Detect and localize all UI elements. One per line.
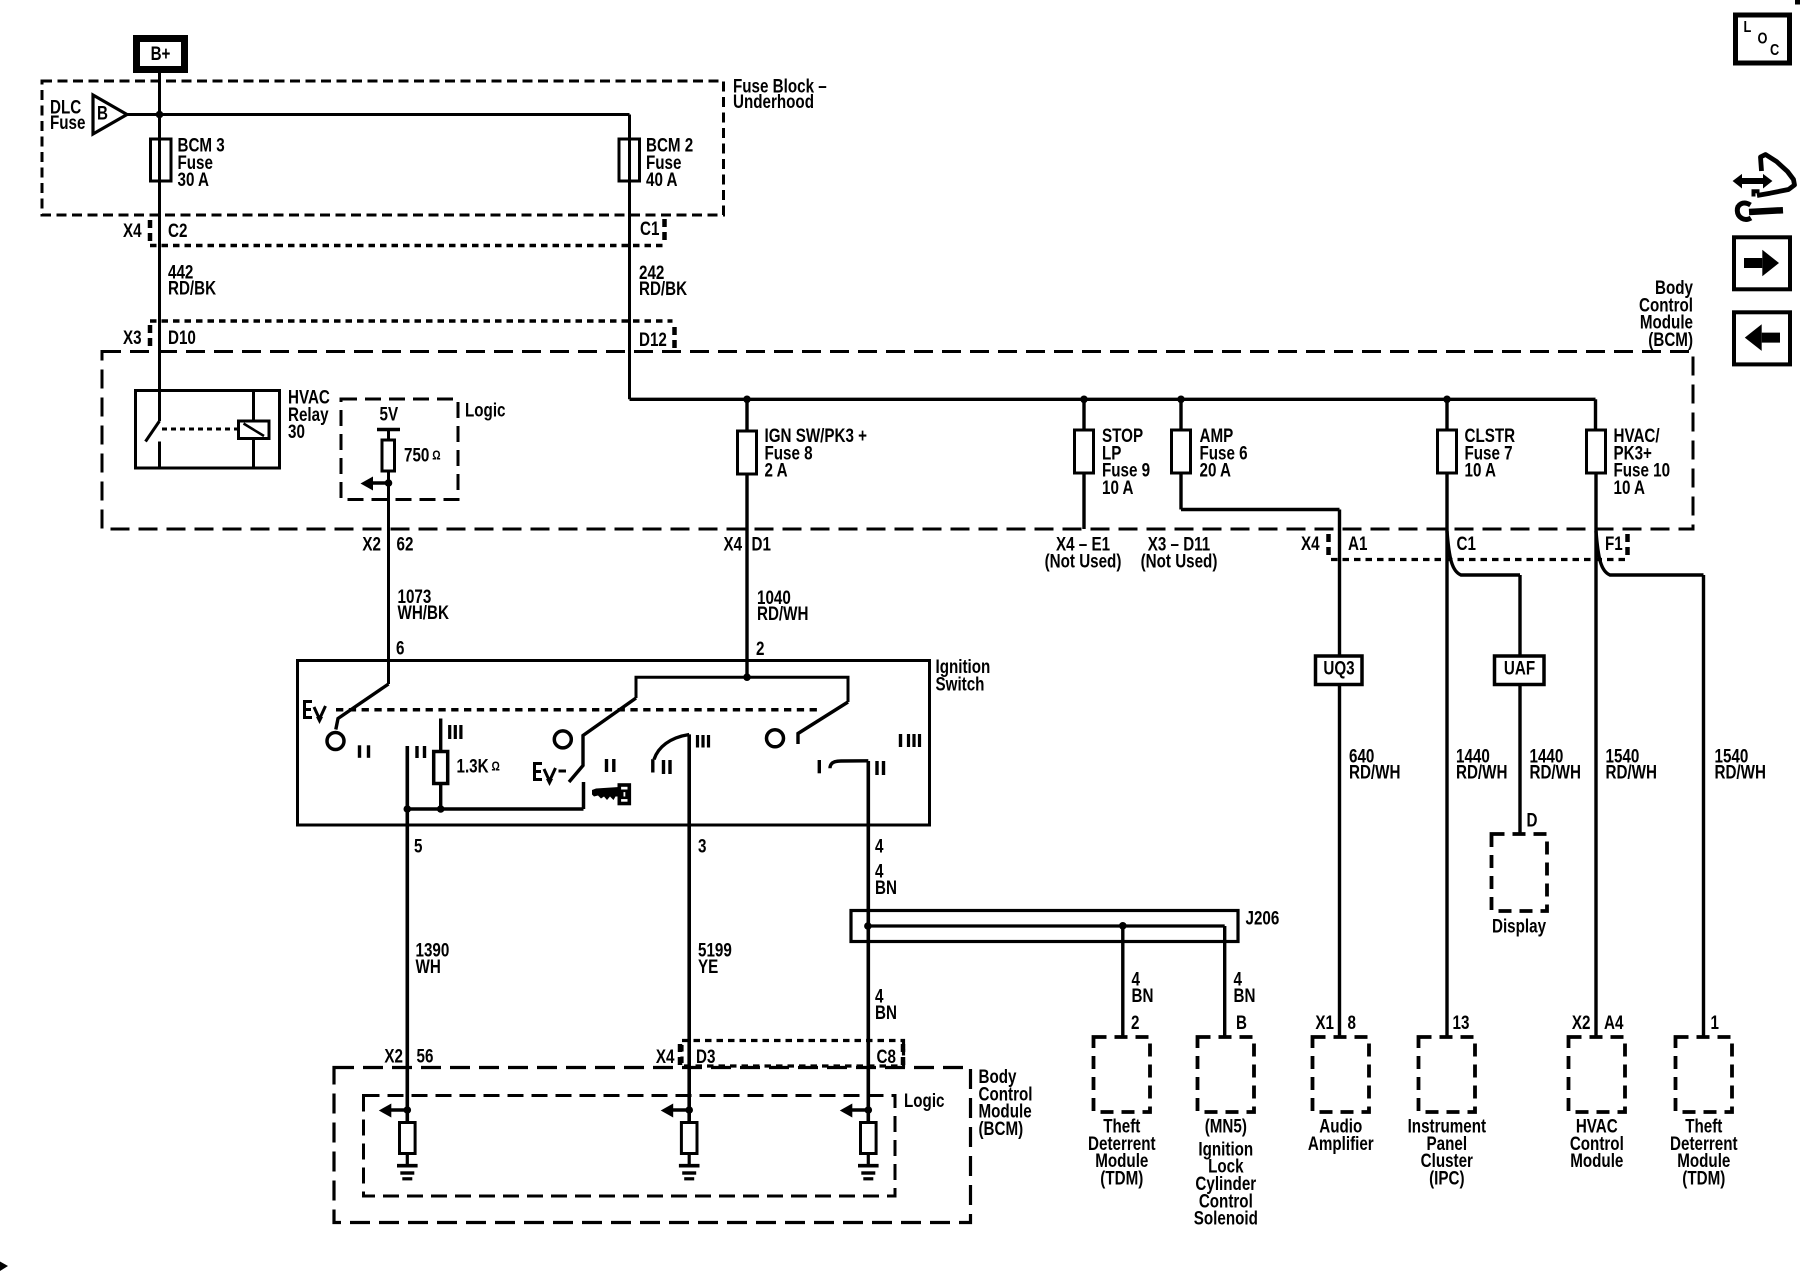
module Audio Amplifier dashed box <box>1313 1037 1370 1112</box>
option box UAF <box>1495 656 1545 685</box>
svg-text:C: C <box>1770 42 1780 60</box>
junction pin2 feed <box>743 673 751 681</box>
wire 1540 RD/WH fuse 10 to HVAC control module <box>1594 473 1597 1037</box>
svg-text:X4: X4 <box>1301 532 1320 554</box>
svg-text:C8: C8 <box>877 1045 897 1067</box>
svg-text:C2: C2 <box>168 219 187 241</box>
actuator dash <box>559 770 567 773</box>
svg-text:UQ3: UQ3 <box>1323 657 1354 679</box>
wire 1390 WH pin 5 to BCM logic <box>405 746 409 1110</box>
svg-text:D10: D10 <box>168 326 196 348</box>
switch 4 fixed contact curve <box>830 761 868 769</box>
module Theft Deterrent Module (right) dashed box <box>1676 1037 1733 1112</box>
svg-text:3: 3 <box>698 835 706 857</box>
switch 2 contact circle <box>554 731 571 748</box>
wire UAF to display <box>1518 685 1521 835</box>
relay coil diagonal <box>244 424 265 437</box>
wire link to key contact <box>407 807 583 810</box>
wire to logic arrow <box>371 481 389 485</box>
wire 4 BN to solenoid pin B <box>1223 926 1226 1037</box>
position mark I (switch 3) <box>651 759 654 772</box>
junction at B+ feed <box>156 111 164 119</box>
junction bus / fuse 7 <box>1443 396 1451 404</box>
node B+ battery feed box <box>137 39 185 70</box>
svg-text:1: 1 <box>1711 1011 1720 1033</box>
svg-text:4: 4 <box>875 835 884 857</box>
resistor 750 ohm <box>382 440 395 471</box>
arrow into BCM logic 3 <box>840 1104 853 1118</box>
svg-text:Fuse Block –Underhood: Fuse Block –Underhood <box>733 75 827 113</box>
fuse block - underhood dashed box <box>42 81 724 215</box>
svg-text:B: B <box>97 102 108 124</box>
ground symbol 1 <box>397 1164 418 1168</box>
wire 640 RD/WH horizontal <box>1181 508 1340 511</box>
svg-text:13: 13 <box>1453 1011 1470 1033</box>
svg-text:L: L <box>1744 19 1752 37</box>
svg-text:D: D <box>1527 809 1538 831</box>
ignition switch box <box>298 661 930 826</box>
wire to logic arrow 2 <box>672 1108 689 1112</box>
wire fuse 6 down <box>1179 473 1182 510</box>
wire resistor to node <box>387 471 390 483</box>
junction resistor/link <box>437 805 445 813</box>
position mark I (right) <box>899 734 902 747</box>
svg-text:X4 – E1(Not Used): X4 – E1(Not Used) <box>1045 533 1122 572</box>
connector line A1-F1 <box>1331 558 1626 561</box>
svg-text:Display: Display <box>1492 915 1546 937</box>
resistor 1.3K ohm <box>434 752 448 784</box>
junction logic input 1 <box>404 1106 412 1114</box>
svg-text:X2: X2 <box>1572 1011 1591 1033</box>
relay switch fixed contact <box>158 442 161 469</box>
wire branch 1540 RD/WH to TDM <box>1596 531 1704 575</box>
svg-text:X4: X4 <box>724 533 743 555</box>
fuse CLSTR Fuse 7 10A <box>1438 430 1457 473</box>
svg-text:A1: A1 <box>1348 532 1368 554</box>
wire branch 1440 RD/WH to UAF <box>1447 531 1520 575</box>
switch 2 lock actuator symbol <box>533 762 556 781</box>
logic dashed box (BCM bottom) <box>364 1096 896 1197</box>
wire resistor 1 to ground <box>406 1154 409 1165</box>
module Display dashed box <box>1492 834 1548 911</box>
svg-text:X2: X2 <box>362 533 381 555</box>
svg-text:8: 8 <box>1348 1011 1357 1033</box>
svg-text:5V: 5V <box>380 403 399 425</box>
svg-text:D12: D12 <box>639 328 667 350</box>
svg-text:DLCFuse: DLCFuse <box>50 96 85 134</box>
junction J206 feed <box>864 922 872 930</box>
relay actuation dashes <box>162 428 238 431</box>
wire to logic arrow 1 <box>390 1108 407 1112</box>
option box UQ3 <box>1316 656 1363 685</box>
svg-text:D1: D1 <box>752 533 772 555</box>
position mark II (switch 2) <box>605 759 608 772</box>
arrow into BCM logic 2 <box>661 1104 674 1118</box>
splice J206 bus bar <box>868 924 1225 927</box>
wire to logic arrow 3 <box>851 1108 868 1112</box>
svg-text:5: 5 <box>414 835 423 857</box>
svg-text:C1: C1 <box>1457 532 1477 554</box>
svg-text:X1: X1 <box>1315 1011 1334 1033</box>
resistor pull-down 1 <box>400 1123 416 1154</box>
wire bus 242 RD/BK inside BCM <box>630 398 1596 401</box>
wire from DLC fuse to BCM 2 fuse <box>127 113 630 116</box>
position mark II (pin 5) <box>415 746 418 758</box>
resistor pull-down 3 <box>861 1123 877 1154</box>
wire 1040 RD/WH fuse 8 to ignition switch <box>745 474 748 677</box>
junction pin5/link <box>404 805 412 813</box>
junction logic input 2 <box>685 1106 693 1114</box>
wire node to resistor 2 <box>687 1110 691 1123</box>
wire node to resistor 1 <box>405 1110 409 1123</box>
switch gang linkage dashes <box>336 708 821 712</box>
ground symbol 2 <box>679 1164 700 1168</box>
legend service icon: squiggle arrow <box>1757 155 1795 196</box>
switch 4 contact circle <box>767 730 784 747</box>
ground symbol 3 <box>858 1164 879 1168</box>
fuse HVAC/PK3+ Fuse 10 10A <box>1587 430 1606 473</box>
wire 242 RD/BK vertical through BCM 2 fuse down to bus <box>628 115 631 400</box>
svg-text:O: O <box>1758 30 1768 48</box>
wire 5199 YE pin 3 to BCM logic <box>687 734 691 1110</box>
arrow into BCM logic 1 <box>379 1104 392 1118</box>
position mark III (right) <box>907 734 910 747</box>
connector line C2-C1 <box>150 244 665 247</box>
legend service icon: double arrow <box>1741 178 1764 184</box>
svg-text:2: 2 <box>756 637 764 659</box>
wire 640 RD/WH UQ3 to audio amplifier <box>1338 685 1341 1038</box>
svg-text:2: 2 <box>1131 1011 1139 1033</box>
splice pack J206 outer box <box>851 911 1238 942</box>
svg-text:D3: D3 <box>696 1045 715 1067</box>
wire node to resistor 3 <box>866 1110 870 1123</box>
switch 4 blade <box>798 702 848 744</box>
svg-text:F1: F1 <box>1605 532 1623 554</box>
position mark II (switch 1) <box>358 745 361 758</box>
svg-text:B: B <box>1236 1011 1247 1033</box>
module HVAC Control Module dashed box <box>1569 1037 1626 1112</box>
body control module (BCM) dashed box <box>102 352 1693 530</box>
body control module (BCM) bottom dashed box <box>334 1068 971 1223</box>
relay switch feed <box>158 391 161 422</box>
module MN5 ignition lock cylinder control solenoid dashed box <box>1198 1037 1255 1112</box>
legend left-arrow box <box>1734 312 1790 364</box>
module Theft Deterrent Module dashed box <box>1094 1037 1151 1112</box>
svg-text:J206: J206 <box>1246 907 1280 929</box>
junction J206 tap <box>1119 922 1127 930</box>
fuse STOP LP Fuse 9 10A <box>1075 430 1094 473</box>
junction bus / fuse 6 <box>1177 396 1185 404</box>
fuse IGN SW/PK3+ Fuse 8 2A <box>738 431 757 474</box>
DLC fuse triangle symbol <box>93 95 127 134</box>
junction bus / fuse 9 <box>1080 396 1088 404</box>
wire 4 BN pin 4 to BCM logic <box>866 761 870 1110</box>
wire 1073 WH/BK from logic to ignition switch <box>387 483 390 684</box>
page corner mark top right <box>1795 0 1800 5</box>
position mark III (switch 3) <box>696 735 699 748</box>
relay coil <box>239 421 270 439</box>
svg-text:IgnitionSwitch: IgnitionSwitch <box>936 655 991 694</box>
svg-text:6: 6 <box>396 637 404 659</box>
svg-text:X3 – D11(Not Used): X3 – D11(Not Used) <box>1141 533 1218 572</box>
svg-text:X4: X4 <box>123 219 142 241</box>
page corner mark bottom left <box>0 1262 8 1272</box>
wire 640 RD/WH down to UQ3 <box>1338 510 1341 657</box>
switch 1 contact circle <box>327 733 344 750</box>
relay coil wire top <box>252 391 255 422</box>
svg-text:HVACControlModule: HVACControlModule <box>1570 1115 1624 1172</box>
switch 1 lock actuator symbol <box>303 700 326 719</box>
wire 442 RD/BK vertical from B+ through BCM 3 fuse down to HVAC relay <box>158 73 161 391</box>
svg-text:B+: B+ <box>151 42 171 64</box>
svg-text:A4: A4 <box>1604 1011 1624 1033</box>
logic dashed box (BCM) <box>341 399 458 500</box>
position mark II (switch 4) <box>875 761 878 775</box>
5V supply bar <box>377 428 400 432</box>
svg-text:Logic: Logic <box>465 399 506 421</box>
svg-text:62: 62 <box>397 533 414 555</box>
junction logic node <box>385 479 393 487</box>
position mark III (resistor) <box>448 725 451 739</box>
resistor pull-down 2 <box>681 1123 697 1154</box>
switch 3 wiper curve <box>654 735 689 760</box>
svg-text:X3: X3 <box>123 326 142 348</box>
wire resistor branch <box>439 719 442 752</box>
arrow into BCM logic <box>361 477 374 491</box>
junction bus / fuse 8 <box>743 396 751 404</box>
position mark II (switch 3) <box>662 760 665 774</box>
wire fuse 9 to X4-E1 <box>1082 473 1085 529</box>
wire bus drop to HVAC/PK3 fuse <box>1594 399 1597 430</box>
relay HVAC Relay 30 <box>136 391 280 469</box>
legend LOC box <box>1736 15 1790 63</box>
connector line D10-D12 <box>150 319 673 322</box>
relay coil wire bottom <box>252 439 255 469</box>
switch 2 fixed contact <box>582 782 586 809</box>
connector outline D3-C8 <box>682 1041 904 1067</box>
fuse BCM 2 40 A <box>619 139 640 181</box>
relay switch blade <box>146 421 160 442</box>
junction logic input 3 <box>865 1106 873 1114</box>
wire 1440 RD/WH fuse 7 to IPC <box>1445 473 1448 1037</box>
svg-text:56: 56 <box>417 1045 434 1067</box>
svg-text:X4: X4 <box>656 1045 675 1067</box>
svg-text:X2: X2 <box>384 1045 403 1067</box>
position mark I (switch 4) <box>818 760 821 773</box>
fuse AMP Fuse 6 20A <box>1172 430 1191 473</box>
connector tick X4/C2 <box>148 220 153 243</box>
switch 2 internal feed wire <box>636 677 848 702</box>
svg-text:UAF: UAF <box>1504 657 1535 679</box>
key icon <box>592 787 619 800</box>
legend right-arrow box <box>1734 237 1790 289</box>
switch 2 blade (key/run) <box>569 698 636 782</box>
wire resistor 2 to ground <box>688 1154 691 1165</box>
svg-text:Logic: Logic <box>904 1089 945 1111</box>
wire resistor 3 to ground <box>867 1154 870 1165</box>
fuse BCM 3 30 A <box>151 139 172 181</box>
legend service icon: wrench <box>1737 203 1751 219</box>
module Instrument Panel Cluster dashed box <box>1419 1037 1476 1112</box>
switch 1 blade (ACC) <box>336 684 389 730</box>
svg-text:C1: C1 <box>640 217 660 239</box>
wire 4 BN to TDM pin 2 <box>1121 926 1124 1037</box>
